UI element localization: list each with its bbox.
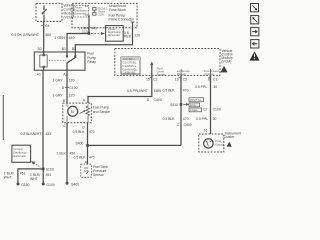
svg-text:(VCM): (VCM) xyxy=(222,60,232,64)
ground G400 xyxy=(66,182,80,187)
svg-text:451: 451 xyxy=(46,132,52,136)
label 1 ORN 440 upper xyxy=(78,26,97,33)
svg-text:0.5 BLK: 0.5 BLK xyxy=(74,155,87,159)
label 1 BLK/WHT 451 (left) xyxy=(4,171,26,179)
label: Vehicle Control Module (VCM) xyxy=(64,3,75,19)
svg-text:C100: C100 xyxy=(213,107,221,111)
svg-text:Distribution: Distribution xyxy=(13,150,27,154)
svg-text:B3: B3 xyxy=(38,47,42,51)
svg-text:C100: C100 xyxy=(69,86,77,90)
svg-text:120: 120 xyxy=(69,78,75,82)
svg-text:30: 30 xyxy=(213,85,217,89)
svg-text:INST CL: INST CL xyxy=(190,98,202,102)
svg-text:0.5 PPL/WHT: 0.5 PPL/WHT xyxy=(127,89,148,93)
label 0.5 BLK 470 lower right xyxy=(163,117,189,121)
wire: VCM 19 C3 down to S400 (0.5 BLK 470) xyxy=(180,75,182,145)
fuse ECM 1 20A xyxy=(93,8,96,16)
warning triangle near cluster label xyxy=(227,142,232,147)
VCM pins 15 C2, 19 C3, 8 C1 xyxy=(146,77,217,81)
svg-text:30: 30 xyxy=(213,117,217,121)
label 1 BLK 450 xyxy=(57,151,76,155)
svg-text:440: 440 xyxy=(91,26,97,30)
toolbar icon: next (right arrow) xyxy=(251,27,259,35)
svg-text:S410: S410 xyxy=(170,103,178,107)
svg-text:B6: B6 xyxy=(85,4,89,8)
svg-text:Signal: Signal xyxy=(157,72,166,76)
fuel level sender resistor xyxy=(80,105,90,123)
svg-text:470: 470 xyxy=(183,89,189,93)
power distribution schematic reference box (solid) xyxy=(106,26,124,42)
label: Instrument Cluster xyxy=(224,131,241,139)
pins A1 A2 xyxy=(37,73,68,77)
junction node on ORN wire xyxy=(88,32,91,35)
svg-text:S400: S400 xyxy=(76,142,84,146)
svg-text:0.5 DK GRN/WHT: 0.5 DK GRN/WHT xyxy=(12,33,40,37)
svg-text:RED: RED xyxy=(124,34,132,38)
label: Fuel Pump Prime Connector xyxy=(109,13,135,21)
stray page edge line (left margin) xyxy=(2,95,4,140)
label 0.8 RED 120 xyxy=(124,31,140,39)
wire: fuse down to junction (1 ORN 440) xyxy=(88,15,90,33)
label: Vehicle Control Module (VCM) right xyxy=(222,49,233,64)
fuel pump and sender dashed box xyxy=(63,103,92,123)
label 0.5 BLK 470 lower xyxy=(74,155,95,159)
svg-text:470: 470 xyxy=(89,130,95,134)
svg-text:440: 440 xyxy=(69,36,75,40)
svg-text:120: 120 xyxy=(134,33,140,37)
schematic reference boxes xyxy=(189,98,204,112)
wire: relay A2 down to fuel pump B (1 GRY 120) xyxy=(66,70,68,103)
label 0.5 BLK 470 upper xyxy=(73,130,95,134)
svg-text:120: 120 xyxy=(69,94,75,98)
relay dashed link xyxy=(49,60,66,62)
fuel tank pressure sensor dashed box xyxy=(81,164,92,177)
svg-text:ENG: ENG xyxy=(190,103,197,107)
ground G150 xyxy=(17,183,30,187)
svg-text:and Sender: and Sender xyxy=(93,110,111,114)
svg-text:Prime Connector: Prime Connector xyxy=(109,18,135,22)
svg-text:Relay: Relay xyxy=(87,60,96,64)
svg-text:Sensor: Sensor xyxy=(93,173,105,177)
svg-text:1589: 1589 xyxy=(154,89,162,93)
svg-text:0.5 BLK: 0.5 BLK xyxy=(73,130,86,134)
wire: pump C down to G400 (1 BLK 450) xyxy=(66,123,68,183)
underhood fuse block dashed box xyxy=(72,3,137,27)
svg-text:C1: C1 xyxy=(213,78,217,82)
svg-text:0.5 PPL: 0.5 PPL xyxy=(195,85,207,89)
svg-text:B1: B1 xyxy=(62,47,66,51)
svg-text:1 ORN: 1 ORN xyxy=(55,36,66,40)
svg-text:Fuse Block: Fuse Block xyxy=(109,8,126,12)
fuel pump motor xyxy=(67,103,78,123)
svg-text:Output: Output xyxy=(204,72,213,76)
svg-text:C4: C4 xyxy=(45,24,49,28)
svg-text:C4/BK/BL: C4/BK/BL xyxy=(122,71,136,75)
svg-text:0.5 PPL: 0.5 PPL xyxy=(196,117,208,121)
svg-text:19: 19 xyxy=(175,78,179,82)
svg-text:Gauge: Gauge xyxy=(215,143,225,147)
VCM fuel pump relay driver symbol xyxy=(42,6,47,22)
VCM fuel level output stub xyxy=(204,69,219,76)
svg-text:1 BLK: 1 BLK xyxy=(57,151,67,155)
svg-text:G104: G104 xyxy=(46,183,54,187)
label 0.5 PPL 30 lower xyxy=(196,117,216,121)
svg-text:Cluster: Cluster xyxy=(224,135,236,139)
connector C100 pin B xyxy=(62,86,78,90)
label 0.5 PPL/WHT 1589 xyxy=(127,89,161,93)
dashed reference arrow into box xyxy=(91,32,105,35)
wire: S103 down to G104 xyxy=(42,169,44,184)
VCM lo sense stub xyxy=(177,69,190,76)
svg-text:FUEL: FUEL xyxy=(190,108,198,112)
svg-text:Schematic: Schematic xyxy=(13,154,26,158)
ground G104 xyxy=(42,183,55,187)
splice S400 xyxy=(76,142,89,147)
dotted reference arrow from S103 to box xyxy=(31,161,41,167)
svg-text:0.8 BLK/WHT: 0.8 BLK/WHT xyxy=(21,132,42,136)
svg-text:C3: C3 xyxy=(183,78,187,82)
svg-text:1 GRY: 1 GRY xyxy=(53,94,64,98)
connector C100 pin C2 xyxy=(203,107,221,111)
svg-text:M: M xyxy=(71,110,74,114)
wire: S400 down to fuel tank pressure sensor A xyxy=(87,145,89,164)
connector C400 pin D xyxy=(147,98,162,102)
wire: S103 left branch to G150 xyxy=(18,169,43,184)
toolbar icon: previous (left arrow) xyxy=(251,40,259,48)
svg-text:S103: S103 xyxy=(46,168,54,172)
svg-text:451: 451 xyxy=(46,173,52,177)
power distribution schematic dashed sub-box xyxy=(74,5,89,17)
label: Fuel Tank Pressure Sensor xyxy=(93,165,108,177)
svg-text:20A: 20A xyxy=(98,13,104,17)
relay coil xyxy=(40,52,47,70)
svg-text:C400: C400 xyxy=(154,98,162,102)
wire: relay A1 down to S103 (0.8 BLK/WHT 451) xyxy=(42,70,44,169)
svg-text:470: 470 xyxy=(183,117,189,121)
svg-text:Schematic: Schematic xyxy=(108,33,121,37)
label 1 ORN 440 lower xyxy=(55,36,75,40)
connector C400 pin C xyxy=(177,123,192,127)
svg-text:WHT: WHT xyxy=(30,177,38,181)
wire label 0.5 DK GRN/WHT 465 xyxy=(12,33,52,37)
wire: sender D down to S400 (0.5 BLK 470) xyxy=(87,123,89,146)
label 0.5 BLK 470 upper right xyxy=(163,89,189,93)
svg-text:465: 465 xyxy=(45,33,51,37)
label 1 GRY 120 upper xyxy=(53,78,75,82)
svg-text:G400: G400 xyxy=(71,183,79,187)
wire: VCM 8 C1 down to fuel gauge (0.5 PPL 30) xyxy=(210,75,212,134)
VCM (right) dashed box xyxy=(115,49,220,76)
svg-text:Ground: Ground xyxy=(13,147,22,151)
fuel pump prime connector stub xyxy=(131,21,135,23)
label: Fuel Gauge xyxy=(215,139,225,147)
svg-text:15: 15 xyxy=(146,78,150,82)
wire: junction left then down to relay B1 xyxy=(67,34,89,53)
svg-text:G150: G150 xyxy=(21,183,29,187)
label: Fuel Pump Relay xyxy=(87,52,96,65)
svg-text:C2: C2 xyxy=(153,78,157,82)
svg-text:8: 8 xyxy=(208,78,210,82)
label 1 BLK/WHT 451 (right) xyxy=(30,173,51,181)
svg-text:WHT: WHT xyxy=(4,176,12,180)
splice S410 with reference arrow xyxy=(170,103,189,107)
relay switch contacts and arm xyxy=(66,52,76,70)
toolbar icon: warning triangle xyxy=(250,51,260,60)
toolbar icon: enlarge (diagonal arrow up-left) xyxy=(251,16,259,24)
connector legend table inside VCM xyxy=(121,57,140,75)
label: Fuel Pump and Sender xyxy=(93,106,111,114)
ground distribution schematic reference box xyxy=(12,145,31,162)
fuel gauge symbol xyxy=(204,139,213,148)
label 0.8 BLK/WHT 451 xyxy=(21,132,52,136)
svg-text:A1: A1 xyxy=(37,73,41,77)
wire: S400 right to VCM 19 C3 branch xyxy=(88,144,182,146)
label: Underhood Fuse Block xyxy=(109,4,126,12)
toolbar icon: shrink (diagonal arrow down-right) xyxy=(251,4,259,12)
svg-text:451: 451 xyxy=(20,171,26,175)
svg-text:16: 16 xyxy=(204,128,208,132)
label 0.5 PPL 30 upper xyxy=(195,85,217,89)
wire: prime connector down, left, to relay B2 (0.8 RED 120) xyxy=(75,22,132,52)
svg-text:0.5 BLK: 0.5 BLK xyxy=(163,117,176,121)
label 1 GRY 120 lower xyxy=(53,94,75,98)
vehicle control module VCM (top left) dashed box xyxy=(36,3,62,21)
warning triangle near VCM label xyxy=(220,66,227,73)
splice S103 xyxy=(42,168,54,172)
svg-text:0.5 BLK: 0.5 BLK xyxy=(163,89,176,93)
instrument cluster dashed box xyxy=(199,134,224,152)
fuse pin labels and value xyxy=(85,4,108,17)
wire: sender A up and right to VCM 15 C2 (0.5 PPL/WHT 1589) xyxy=(88,75,152,103)
fuel pump relay box xyxy=(34,52,85,70)
svg-text:C2: C2 xyxy=(203,107,207,111)
svg-text:C400: C400 xyxy=(184,123,192,127)
wire: VCM C4 down to relay B3 (0.5 DK GRN/WHT 465) xyxy=(41,21,44,52)
VCM fuel level signal input symbol xyxy=(150,62,165,77)
svg-text:B2: B2 xyxy=(72,47,76,51)
svg-text:1 GRY: 1 GRY xyxy=(53,78,64,82)
svg-text:470: 470 xyxy=(89,155,95,159)
